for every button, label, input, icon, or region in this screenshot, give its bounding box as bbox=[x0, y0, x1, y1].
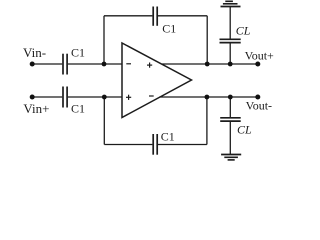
node terminal Vout- bbox=[255, 95, 260, 100]
wire top feedback rail left bbox=[104, 15, 152, 17]
svg-text:C1: C1 bbox=[162, 21, 176, 35]
capacitor C1 bottom input plates bbox=[62, 87, 64, 108]
wire Vin- input segment left bbox=[32, 63, 62, 65]
capacitor C1 bottom feedback plates bbox=[152, 134, 154, 155]
svg-text:C1: C1 bbox=[161, 130, 175, 144]
wire Vout+ output bbox=[162, 63, 258, 65]
svg-text:CL: CL bbox=[236, 24, 251, 38]
node Vout- CL junction bbox=[228, 95, 233, 100]
op-amp plus sign bottom input bbox=[126, 96, 131, 98]
wire bottom feedback rail right bbox=[158, 144, 207, 146]
svg-text:Vin-: Vin- bbox=[23, 45, 46, 60]
node Vout+ CL junction bbox=[228, 62, 233, 67]
op-amp minus sign top input bbox=[126, 63, 131, 65]
wire Vout- output bbox=[159, 96, 257, 98]
ground bottom bbox=[221, 154, 241, 156]
node terminal Vout+ bbox=[255, 62, 260, 67]
capacitor C1 top feedback plates bbox=[152, 7, 154, 26]
node Vout+ feedback junction bbox=[205, 62, 210, 67]
op-amp plus sign top output polarity bbox=[147, 64, 152, 66]
svg-text:CL: CL bbox=[237, 122, 252, 136]
svg-text:Vout-: Vout- bbox=[246, 98, 272, 112]
wire bottom feedback vertical left bbox=[103, 97, 105, 145]
wire top feedback rail right bbox=[158, 15, 207, 17]
wire Vin- input segment right bbox=[68, 63, 122, 65]
wire CL top branch lower bbox=[229, 43, 231, 64]
wire CL top branch upper bbox=[229, 7, 231, 40]
ground top (flipped) bbox=[221, 6, 241, 8]
node bottom input feedback junction bbox=[102, 95, 107, 100]
node terminal Vin+ bbox=[30, 95, 35, 100]
wire top feedback vertical right bbox=[206, 16, 208, 64]
op-amp minus sign bottom output polarity bbox=[149, 95, 154, 97]
capacitor CL top plates bbox=[220, 42, 241, 44]
node Vout- feedback junction bbox=[205, 95, 210, 100]
wire bottom feedback vertical right bbox=[206, 97, 208, 145]
svg-text:Vout+: Vout+ bbox=[245, 49, 274, 63]
wire bottom feedback rail left bbox=[104, 144, 152, 146]
wire top feedback vertical left bbox=[103, 16, 105, 64]
wire Vin+ input segment left bbox=[32, 96, 62, 98]
node terminal Vin- bbox=[30, 62, 35, 67]
svg-text:C1: C1 bbox=[71, 101, 85, 115]
node top input feedback junction bbox=[102, 62, 107, 67]
wire CL bottom branch upper bbox=[229, 97, 231, 118]
svg-text:C1: C1 bbox=[71, 46, 85, 60]
wire Vin+ input segment right bbox=[68, 96, 122, 98]
op-amp U1 triangle bbox=[122, 43, 192, 118]
capacitor C1 top input plates bbox=[62, 54, 64, 75]
capacitor CL bottom plates bbox=[220, 117, 241, 119]
wire CL bottom branch lower bbox=[229, 121, 231, 154]
svg-text:Vin+: Vin+ bbox=[23, 101, 49, 116]
